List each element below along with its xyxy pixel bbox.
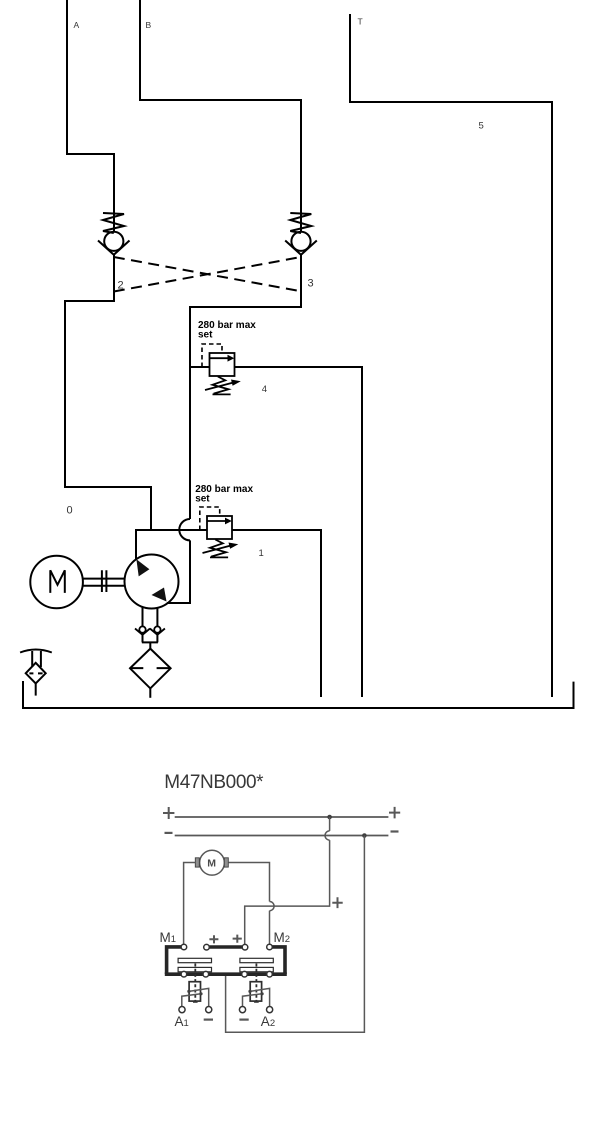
- wire pump suction lines: [143, 607, 158, 627]
- plus sign right: [389, 807, 400, 819]
- bar circle 1: [181, 971, 187, 977]
- contact plates right block: [240, 958, 273, 962]
- breather filter diamond: [26, 663, 46, 684]
- junction dot minus rail: [362, 833, 367, 838]
- coil K1 lead left: [182, 994, 201, 1007]
- relief valve U1 pilot dashed: [200, 507, 220, 530]
- shaft coupling: [83, 570, 125, 592]
- minus sign right: [391, 830, 399, 832]
- wire continue to M2: [269, 911, 271, 945]
- wire pump outlet line: [136, 530, 207, 560]
- svg-text:3: 3: [308, 278, 314, 290]
- svg-text:M2: M2: [274, 930, 291, 945]
- bar circle 2: [203, 971, 209, 977]
- minus sign left: [165, 832, 173, 834]
- coil K2 lead left: [243, 994, 263, 1007]
- wire breather to tank: [35, 684, 37, 696]
- dashed armature link left: [194, 964, 196, 1002]
- wire valve4 input: [190, 366, 210, 368]
- plus label terminal right: [233, 935, 242, 943]
- plus rail: [175, 816, 389, 818]
- svg-text:B: B: [146, 20, 152, 30]
- tank: [23, 681, 574, 708]
- svg-text:0: 0: [67, 505, 73, 517]
- coil K2 box: [250, 982, 261, 1001]
- suction check valve right: [154, 626, 160, 632]
- coil K1 box: [189, 982, 200, 1001]
- wire port T line: [350, 14, 552, 697]
- relief valve U1 spring: [210, 540, 226, 557]
- wire plus jog to terminal: [245, 840, 330, 945]
- wire plus drop: [329, 817, 331, 831]
- coil K1 lead right: [189, 988, 209, 1006]
- coil K2 terminal minus: [239, 1007, 245, 1013]
- electric motor M letter: [50, 570, 65, 593]
- terminal circle M1: [181, 944, 187, 950]
- dc motor brush right: [224, 858, 228, 867]
- thick top middle: [209, 945, 242, 949]
- svg-text:A2: A2: [261, 1014, 275, 1029]
- filter F1: [130, 649, 171, 689]
- check valve 3 seat: [285, 241, 317, 255]
- relief valve U1 arrow: [208, 520, 227, 522]
- svg-text:1: 1: [259, 548, 264, 559]
- electric motor M1 circle: [30, 556, 83, 609]
- svg-text:4: 4: [262, 384, 267, 395]
- pump triangle top: [136, 559, 149, 576]
- plus sign left: [163, 807, 174, 819]
- thick top left: [167, 947, 181, 974]
- bar circle 3: [242, 971, 248, 977]
- wire filter to tank: [149, 688, 151, 697]
- contactor block thick frame: [165, 947, 287, 974]
- wire valve3 down to branch: [190, 254, 301, 519]
- terminal circle plus left: [204, 944, 210, 950]
- label minus left: [204, 1018, 213, 1020]
- relief valve U4 adjust arrow: [205, 383, 233, 390]
- wire hop over pump outlet line: [179, 519, 190, 540]
- relief valve U4 body: [210, 353, 235, 376]
- check valve 3 spring: [290, 213, 311, 233]
- thick top right: [272, 947, 285, 974]
- minus rail: [175, 835, 389, 837]
- wire motor left to M1: [184, 863, 196, 945]
- check valve 3 ball: [291, 232, 310, 251]
- wire valve2 to pump step: [65, 254, 151, 531]
- relief valve U4 pilot dashed: [202, 344, 222, 367]
- coil K2 lead right: [250, 988, 270, 1006]
- dc motor circle: [200, 850, 225, 875]
- svg-text:M47NB000*: M47NB000*: [164, 772, 264, 793]
- coil K2 terminal A2: [267, 1007, 273, 1013]
- relief valve U4 spring: [213, 377, 229, 394]
- svg-text:5: 5: [479, 121, 484, 132]
- wire B down through valve 3 spring: [300, 99, 302, 233]
- dashed armature link right: [255, 964, 257, 1002]
- contact plates left block: [178, 958, 211, 962]
- terminal circle plus right: [242, 944, 248, 950]
- wire motor right down: [228, 863, 269, 902]
- coil K1 terminal A1: [179, 1007, 185, 1013]
- relief valve U1 body: [207, 516, 232, 539]
- check valve 2 seat: [98, 241, 130, 255]
- svg-text:set: set: [198, 330, 213, 341]
- suction check valve left: [139, 626, 145, 632]
- svg-text:M: M: [207, 858, 216, 870]
- svg-text:A: A: [74, 20, 80, 30]
- wire valve4 output to tank: [235, 367, 363, 697]
- wire valve1 output to tank: [232, 530, 321, 697]
- dc motor brush left: [195, 858, 199, 867]
- plus label at jog: [332, 897, 342, 908]
- wire port A line: [67, 0, 114, 154]
- svg-text:M1: M1: [160, 930, 177, 945]
- wire hop over plus jog: [270, 902, 275, 911]
- check valve 2 spring: [103, 213, 124, 233]
- thick bottom bar: [165, 972, 287, 976]
- plus label terminal left: [209, 935, 218, 943]
- coil K1 terminal minus: [206, 1007, 212, 1013]
- pump triangle bottom: [152, 588, 167, 602]
- check valve 2 ball: [104, 232, 123, 251]
- relief valve U1 adjust arrow: [203, 546, 231, 553]
- terminal circle M2: [267, 944, 273, 950]
- pump P1 circle: [125, 555, 179, 609]
- wire minus drop to block bottom: [226, 836, 365, 1033]
- wire suction manifold: [142, 635, 158, 649]
- junction dot plus rail: [327, 815, 332, 820]
- svg-text:A1: A1: [175, 1014, 189, 1029]
- svg-text:T: T: [358, 17, 363, 27]
- relief valve U4 arrow: [210, 357, 229, 359]
- wire port B line: [140, 0, 301, 100]
- pilot line crossing dashed X: [114, 257, 301, 292]
- label minus right: [239, 1018, 248, 1020]
- wire branch down to pump port B: [167, 540, 190, 603]
- bar circle 4: [267, 971, 273, 977]
- wire A down through valve 2 spring: [113, 153, 115, 233]
- wire hop over minus rail: [325, 831, 330, 840]
- svg-text:set: set: [195, 494, 210, 505]
- breather cap: [20, 650, 52, 653]
